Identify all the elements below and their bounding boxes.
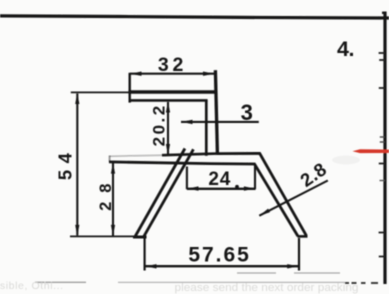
stem right edge (and 32 right extension): [215, 70, 217, 153]
dimension 20.2 bottom arrow: [166, 144, 170, 155]
dimension 28 top arrow: [111, 163, 115, 174]
left leg inner edge: [144, 149, 194, 236]
hat plate top edge right and right leg outer edge: [217, 153, 307, 235]
leader 2.8 text: [296, 158, 330, 191]
right border tick y60: [379, 59, 385, 61]
svg-text:24: 24: [208, 169, 231, 190]
watermark dark dashes: [345, 282, 378, 284]
dimension 54 line: [76, 94, 78, 236]
dimension 32 right arrow: [203, 72, 214, 76]
dimension 24 right extension tick: [254, 165, 256, 189]
svg-text:54: 54: [55, 147, 76, 181]
dimension 28 bottom arrow: [111, 225, 115, 236]
dimension 54 top arrow: [75, 93, 79, 104]
hat plate left end edge: [109, 156, 111, 163]
left leg outer edge: [135, 149, 185, 238]
right border tick y163: [379, 163, 385, 165]
right border tick y88: [379, 87, 385, 89]
right border tick y180: [380, 180, 385, 182]
hat plate top edge mid (left of stem): [162, 154, 217, 156]
top border line: [0, 16, 389, 18]
dimension 24 left extension tick: [186, 167, 188, 190]
dimension 28 line: [112, 163, 114, 236]
red mark shadow: [332, 156, 360, 165]
dimension 20.2 top arrow: [166, 101, 170, 112]
dimension 57.65 left arrow: [145, 264, 156, 268]
dimension 57.65 line: [145, 265, 299, 267]
hat plate top edge left (faint): [110, 154, 165, 157]
flange bottom edge: [129, 99, 208, 102]
dimension 57.65 left extension line: [144, 239, 146, 271]
leader 2.8 line: [259, 181, 328, 216]
ink blob on 24 line: [235, 185, 239, 189]
right border dot y142: [380, 141, 385, 143]
dimension 57.65 right arrow: [287, 264, 298, 268]
watermark upper rule segment b: [294, 272, 340, 274]
dimension 54 bottom extension line: [70, 235, 147, 237]
dimension 32 line: [130, 73, 215, 75]
right border line: [383, 12, 386, 285]
svg-text:ssible, Othi...: ssible, Othi...: [0, 280, 64, 292]
leader 2.8 arrow: [259, 209, 270, 216]
leader 3 arrow: [181, 120, 193, 124]
dimension 32 left arrow: [130, 72, 141, 76]
right border tick y53: [379, 52, 385, 54]
hat plate bottom edge and right leg inner edge: [109, 162, 298, 236]
watermark lower rule left: [35, 281, 86, 283]
watermark lower rule mid: [118, 281, 345, 283]
right foot bottom edge: [297, 235, 307, 238]
right border dot y137: [380, 136, 385, 138]
flange top edge: [128, 90, 215, 93]
svg-text:57.65: 57.65: [188, 244, 251, 267]
dimension 20.2 line: [167, 102, 169, 155]
dimension 24 left arrow: [187, 186, 198, 190]
stem left edge: [205, 100, 208, 156]
dimension 57.65 right extension line: [298, 238, 300, 271]
red mark: [353, 149, 389, 153]
right border tick y232: [379, 232, 385, 234]
svg-text:20.2: 20.2: [150, 103, 169, 146]
flange left edge (and 32 left extension): [128, 73, 130, 103]
right border top hook: [382, 12, 385, 14]
leader 3 line: [181, 121, 259, 123]
svg-text:please send the next order pac: please send the next order packing: [175, 282, 359, 294]
watermark upper rule segment a: [237, 272, 276, 274]
dimension 54 top extension line: [71, 91, 129, 93]
right border tick y256: [379, 256, 385, 258]
dimension 24 line: [187, 188, 256, 190]
svg-text:4.: 4.: [337, 37, 354, 61]
left foot bottom edge: [133, 236, 147, 238]
dimension 24 right arrow: [244, 186, 255, 190]
dimension 54 bottom arrow: [75, 225, 79, 236]
